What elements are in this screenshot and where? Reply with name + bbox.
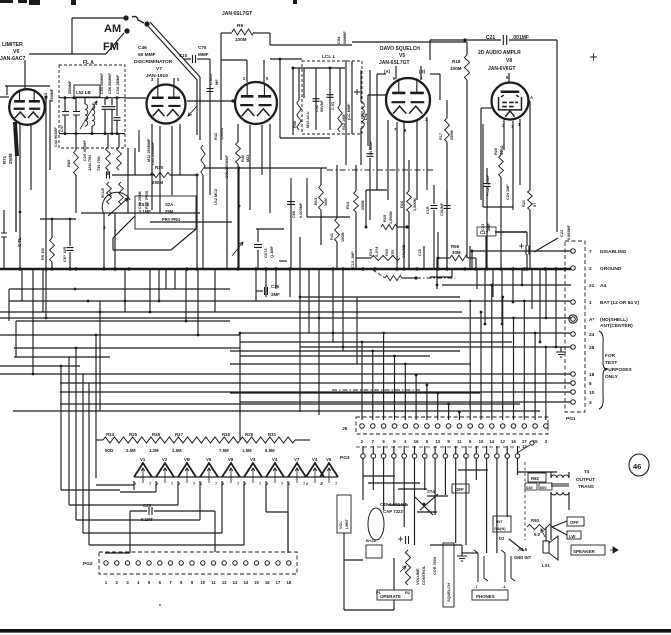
wire to PG1 pin 10 (60, 391, 571, 393)
value box 600 (539, 483, 552, 490)
wire switch link (171, 229, 196, 250)
wire (517, 458, 519, 475)
wire (105, 552, 130, 554)
potentiometer V8 (222, 463, 240, 477)
svg-text:L52 LB: L52 LB (76, 90, 91, 95)
wire junction (238, 167, 241, 170)
wire (179, 124, 181, 175)
resistor R65 (74, 150, 79, 175)
svg-text:C1?: C1? (480, 230, 489, 235)
terminal PG2-2 (115, 561, 119, 565)
svg-text:C55 50MMF: C55 50MMF (100, 72, 104, 94)
terminal PG2-7 (168, 561, 172, 565)
svg-text:7: 7 (215, 481, 217, 486)
wire (199, 77, 201, 140)
dashed gang line (524, 462, 526, 540)
wire (0, 311, 462, 313)
terminal PG3-9 (443, 454, 448, 459)
wire (226, 168, 228, 269)
wire (184, 58, 191, 60)
terminal PG2-6 (158, 561, 162, 565)
resistor R31 (335, 218, 340, 242)
svg-text:V5: V5 (399, 53, 405, 59)
wire (360, 128, 362, 165)
svg-text:C0UMB: C0UMB (402, 244, 406, 258)
svg-text:DISABLING: DISABLING (600, 249, 627, 255)
svg-text:V1: V1 (140, 457, 146, 462)
wire (124, 269, 126, 312)
wire (197, 58, 210, 60)
wire to PG1 pin 18 (0, 373, 571, 375)
wire (402, 277, 416, 279)
resistor R17 (445, 118, 450, 142)
resistor R66 (106, 147, 111, 170)
brace for test purposes group (599, 331, 607, 409)
wire junction (299, 296, 302, 299)
inductor L52 winding a (85, 104, 88, 126)
wire (433, 185, 435, 204)
wire junction (404, 363, 407, 366)
potentiometer V4 (266, 463, 284, 477)
wire junction (127, 267, 130, 270)
terminal PG2-9 (190, 561, 194, 565)
svg-text:(B): (B) (419, 69, 426, 74)
svg-text:LS1: LS1 (542, 563, 550, 568)
wire (403, 122, 405, 269)
wire (64, 98, 66, 111)
svg-text:5?: 5? (533, 202, 537, 207)
svg-text:R19: R19 (369, 249, 373, 256)
wire (420, 66, 422, 79)
svg-text:C47: C47 (60, 125, 64, 132)
wire (526, 254, 528, 269)
wire (21, 269, 23, 301)
terminal PG1-7 (571, 249, 576, 254)
svg-text:R11: R11 (213, 132, 218, 140)
svg-text:V4: V4 (312, 457, 318, 462)
wire (492, 269, 494, 297)
gang dash-dot line lower (332, 389, 420, 391)
wire (500, 177, 502, 269)
switch S1 pole (144, 21, 149, 26)
svg-text:L91: L91 (363, 112, 368, 120)
tube V8 envelope (492, 83, 529, 120)
wire (417, 511, 437, 513)
wire (5, 85, 50, 87)
wire (517, 471, 557, 473)
wire (521, 269, 523, 285)
wire (275, 269, 277, 289)
wire (568, 492, 570, 510)
svg-text:D2: D2 (499, 536, 505, 541)
wire (0, 96, 9, 98)
wire (155, 481, 157, 492)
wire junction (99, 311, 102, 314)
wire (388, 504, 408, 506)
wire (526, 232, 528, 246)
svg-text:B+28: B+28 (366, 538, 376, 543)
svg-text:12: 12 (222, 580, 227, 585)
potentiometer V4 (306, 463, 324, 477)
wire (173, 78, 175, 85)
wire (329, 68, 331, 130)
terminal PG1 antenna outer ring (569, 315, 577, 323)
rotary switch arm (108, 198, 128, 216)
svg-text:C15: C15 (43, 92, 48, 100)
wire (345, 60, 347, 165)
svg-text:30M: 30M (452, 250, 461, 255)
wire (256, 290, 263, 292)
wire junction (436, 267, 439, 270)
resistor R69 (119, 182, 124, 204)
terminal J5-6 (414, 424, 419, 429)
wire junction (236, 267, 239, 270)
svg-text:C20 .005MF: C20 .005MF (83, 139, 87, 161)
control label box PHONES (472, 590, 508, 600)
wire (239, 333, 241, 440)
wire junction (331, 267, 334, 270)
wire (465, 458, 467, 545)
wire (14, 347, 240, 349)
wire (265, 481, 267, 512)
svg-text:50Ω: 50Ω (105, 448, 114, 453)
wire (430, 73, 440, 75)
svg-text:A*: A* (589, 317, 594, 323)
wire (60, 403, 520, 405)
leader line C22 (534, 238, 558, 252)
svg-text:C15: C15 (418, 249, 422, 256)
svg-text:R28: R28 (222, 432, 231, 437)
wire junction (264, 267, 267, 270)
svg-text:R6: R6 (237, 23, 243, 29)
wire junction (342, 346, 345, 349)
wire junction (318, 317, 321, 320)
wire junction (341, 267, 344, 270)
wire (367, 95, 369, 146)
resistor R23 (371, 255, 400, 260)
wire junction (239, 332, 242, 335)
svg-text:BAT (12 OR 84 V): BAT (12 OR 84 V) (600, 300, 639, 306)
svg-text:LCL L: LCL L (322, 54, 336, 60)
svg-text:(A): (A) (384, 69, 391, 74)
wire junction (51, 218, 54, 221)
wire (104, 110, 106, 134)
wire (238, 168, 240, 269)
wire (414, 446, 416, 454)
svg-text:COR 7604: COR 7604 (433, 556, 437, 575)
terminal PG1-28 (571, 345, 576, 350)
capacitor C22 (526, 246, 529, 255)
wire (496, 446, 498, 454)
wire junction (469, 300, 472, 303)
svg-text:16: 16 (511, 439, 516, 444)
svg-text:PG3: PG3 (340, 455, 350, 461)
svg-text:ANT(CENTER): ANT(CENTER) (600, 323, 633, 329)
wire junction (534, 332, 537, 335)
wire (127, 148, 129, 213)
wire (40, 218, 76, 220)
wire junction (116, 132, 119, 135)
svg-text:R13: R13 (313, 197, 318, 205)
terminal PG2-14 (244, 561, 248, 565)
wire junction (512, 317, 515, 320)
wire (3, 237, 5, 269)
svg-text:V3: V3 (250, 457, 256, 462)
capacitor C17 (444, 206, 451, 209)
wire (483, 206, 513, 208)
wire (408, 160, 410, 191)
wire junction (447, 403, 450, 406)
wire junction (106, 96, 109, 99)
terminal J5-1 (360, 424, 365, 429)
svg-text:A: A (530, 95, 533, 100)
wire (95, 335, 97, 478)
wire (129, 511, 131, 553)
wire (64, 115, 66, 134)
wire (287, 512, 289, 552)
wire to switch (113, 216, 135, 238)
wire (560, 347, 562, 352)
wire (237, 164, 239, 269)
wire junction (74, 288, 77, 291)
wire switch to detector (147, 25, 197, 80)
inductor L52 winding b (92, 104, 95, 126)
wire (529, 101, 531, 168)
wire (475, 446, 477, 454)
wire (369, 70, 371, 150)
wire (466, 80, 468, 258)
terminal PG1-2 (571, 266, 576, 271)
terminal J5-3 (381, 424, 386, 429)
resistor R18 (464, 55, 469, 80)
svg-text:CAP 7323: CAP 7323 (383, 509, 403, 514)
svg-text:V7: V7 (294, 457, 300, 462)
speck (159, 604, 161, 606)
wire (159, 126, 161, 213)
wire (114, 213, 116, 269)
switch S1 contact FM (124, 28, 129, 33)
svg-text:0.005MF: 0.005MF (298, 202, 303, 218)
terminal PG3-1 (361, 454, 366, 459)
terminal J5-10 (457, 424, 462, 429)
svg-text:250M: 250M (152, 180, 163, 185)
wire junction (185, 267, 188, 270)
svg-text:100M: 100M (341, 233, 345, 243)
wire (130, 510, 147, 512)
svg-text:250M: 250M (8, 153, 13, 164)
wire (531, 269, 533, 309)
wire (196, 80, 198, 135)
terminal PG2-1 (104, 561, 108, 565)
terminal PG2-12 (222, 561, 226, 565)
wire (249, 125, 251, 210)
svg-text:R27: R27 (175, 432, 184, 437)
wire (96, 484, 134, 486)
wire junction (545, 346, 548, 349)
svg-text:M12 250MMF: M12 250MMF (147, 138, 151, 162)
svg-text:3: 3 (589, 400, 592, 406)
switch S1 wiper (132, 16, 144, 23)
svg-text:MF: MF (214, 79, 219, 85)
wire (397, 226, 408, 228)
wire (519, 119, 521, 185)
wire junction (521, 284, 524, 287)
capacitor C22 plus polarity (519, 244, 524, 249)
wire (451, 269, 453, 277)
potentiometer V1 (134, 463, 152, 477)
terminal PG3-7 (423, 454, 428, 459)
wire (363, 475, 395, 477)
wire (568, 472, 570, 478)
wire (356, 297, 358, 364)
resistor R67 (117, 147, 122, 170)
relay K1 oval (368, 508, 384, 540)
wire (103, 213, 105, 269)
wire (158, 270, 160, 302)
svg-text:R45: R45 (241, 155, 245, 162)
wire (376, 74, 378, 190)
wire (270, 44, 352, 46)
wire (512, 121, 514, 210)
terminal PG1-10 (571, 390, 576, 395)
wire junction (231, 99, 234, 102)
svg-text:15: 15 (254, 580, 259, 585)
wire (111, 98, 113, 105)
terminal PG3-15 (505, 454, 510, 459)
svg-text:93MMF: 93MMF (49, 88, 54, 102)
wire (280, 137, 330, 139)
wire junction (393, 355, 396, 358)
wire junction (361, 341, 364, 344)
wire (298, 68, 300, 100)
svg-text:28: 28 (589, 345, 595, 351)
wire (430, 39, 501, 41)
svg-text:A3-5: A3-5 (518, 547, 528, 552)
wire (408, 212, 410, 269)
wire (138, 130, 140, 152)
wire (174, 270, 176, 290)
wire (0, 334, 240, 336)
wire (133, 481, 135, 490)
wire (157, 78, 159, 85)
wire (230, 363, 470, 365)
terminal PG2-8 (179, 561, 183, 565)
wire (486, 168, 488, 183)
wire (221, 481, 223, 533)
wire (426, 385, 428, 420)
wire (60, 366, 62, 490)
capacitor C49 (406, 536, 409, 544)
wire junction (45, 317, 48, 320)
wire (75, 175, 77, 213)
wire (529, 168, 531, 190)
svg-text:LW: LW (569, 534, 576, 539)
wire (366, 189, 387, 191)
terminal PG3-8 (433, 454, 438, 459)
wire junction (436, 284, 439, 287)
terminal J5-11 (468, 424, 473, 429)
wire (534, 333, 536, 420)
wire (393, 446, 395, 454)
inductor L52 name box (74, 85, 100, 97)
wire (469, 301, 471, 420)
capacitor C49 polarity (398, 537, 403, 542)
wire (424, 446, 426, 454)
svg-text:R21: R21 (522, 200, 526, 207)
arrow after speaker (610, 547, 618, 553)
wire (279, 260, 287, 262)
svg-text:M13 ACU: M13 ACU (306, 111, 310, 128)
wire (69, 219, 71, 246)
wire (433, 210, 435, 269)
wire (49, 100, 51, 170)
svg-text:13: 13 (435, 439, 440, 444)
wire (120, 491, 156, 493)
variable cap arrow (232, 242, 243, 256)
wire to PG1 pin 24 (240, 332, 571, 334)
terminal 13 riser (517, 445, 530, 453)
wire (368, 482, 420, 484)
wire junction (499, 267, 502, 270)
svg-text:R65: R65 (66, 159, 71, 167)
svg-text:JAN-6SL7GT: JAN-6SL7GT (379, 60, 410, 66)
svg-text:C66: C66 (291, 210, 296, 218)
terminal PG1-3 (571, 400, 576, 405)
volume wiper arrow (400, 566, 406, 572)
svg-text:T4: T4 (584, 469, 590, 474)
wire (113, 249, 171, 251)
wire (204, 167, 327, 169)
terminal J5-14 (500, 424, 505, 429)
terminal J5-5 (403, 424, 408, 429)
wire (82, 374, 84, 533)
svg-text:TRANS: TRANS (578, 484, 594, 489)
capacitor C63 (254, 245, 262, 248)
arrow to discriminator (188, 106, 197, 116)
wire (437, 232, 439, 269)
wire (475, 458, 477, 480)
terminal PG3-6 (412, 454, 417, 459)
wire (469, 246, 471, 269)
wire (320, 210, 322, 245)
tube V6 envelope (9, 89, 45, 125)
wire (75, 134, 77, 150)
wire (254, 32, 270, 34)
resistor R14 (354, 191, 359, 212)
filter FL A dashed enclosure (59, 65, 125, 148)
wire (61, 489, 120, 491)
wire (426, 117, 428, 190)
wire junction (111, 132, 114, 135)
terminal PG3-3 (381, 454, 386, 459)
wire junction (555, 346, 558, 349)
wire (393, 600, 395, 610)
wire (202, 175, 204, 269)
wire junction (196, 174, 199, 177)
wire junction (74, 267, 77, 270)
wire (342, 269, 344, 351)
wire (465, 446, 467, 454)
wire junction (525, 267, 528, 270)
svg-text:7: 7 (281, 481, 283, 486)
wire (506, 446, 508, 454)
wire (214, 270, 216, 313)
wire (481, 107, 492, 109)
svg-text:50MMF: 50MMF (343, 30, 347, 44)
phone jack J4 (501, 550, 515, 582)
capacitor C21 (503, 35, 506, 45)
svg-text:(CC MMF: (CC MMF (347, 103, 351, 120)
